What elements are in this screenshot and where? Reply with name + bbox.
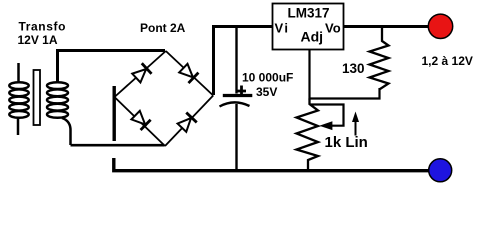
output terminal negative (blue) — [429, 159, 452, 182]
capacitor C1 top plate — [223, 94, 253, 97]
svg-text:Vi: Vi — [275, 21, 290, 36]
diode D3 (bridge lower-left, cathode toward bottom corner) — [131, 110, 151, 130]
capacitor C1 negative lead — [235, 104, 237, 169]
transformer T1 secondary winding — [47, 82, 71, 145]
wire secondary bottom to bridge AC bottom — [71, 144, 165, 147]
wire bridge DC plus riser and rail to LM317 Vi — [214, 27, 273, 96]
label capacitor "10 000uF 35V" — [242, 71, 293, 100]
wire bridge edge left-bottom — [115, 97, 166, 146]
transformer T1 core — [34, 70, 41, 125]
potentiometer P1 body (1k) — [297, 99, 319, 173]
svg-text:Vo: Vo — [325, 21, 341, 36]
svg-text:Transfo: Transfo — [19, 20, 67, 34]
output terminal positive (red) — [428, 14, 452, 38]
svg-text:LM317: LM317 — [288, 6, 330, 21]
capacitor C1 positive lead — [235, 27, 237, 94]
svg-text:12V 1A: 12V 1A — [18, 33, 58, 47]
transformer T1 primary winding — [9, 63, 28, 135]
svg-text:10 000uF: 10 000uF — [242, 71, 293, 85]
svg-text:1k Lin: 1k Lin — [325, 134, 368, 151]
svg-text:Pont 2A: Pont 2A — [140, 21, 186, 35]
wire bridge edge bottom-right — [165, 96, 213, 147]
wire bridge edge left-top — [115, 51, 166, 97]
diode D4 (bridge lower-right, cathode toward right corner) — [177, 113, 197, 133]
svg-text:130: 130 — [342, 61, 365, 76]
wire LM317 Adj to R1 bottom — [310, 50, 380, 99]
annotation up arrow — [352, 112, 359, 136]
potentiometer P1 wiper arrow — [310, 105, 344, 130]
wire secondary top to bridge AC top — [58, 51, 166, 84]
wire bottom rail (0V) to negative terminal — [114, 158, 429, 171]
svg-text:Adj: Adj — [301, 29, 324, 45]
capacitor C1 plus mark — [237, 86, 247, 96]
capacitor C1 curved plate — [220, 102, 250, 106]
wire stub at bridge left corner (DC minus) — [112, 86, 115, 141]
diode D1 (bridge upper-left, cathode toward top corner) — [131, 63, 151, 83]
wire LM317 Vo to positive output terminal — [344, 25, 429, 28]
diode D2 (bridge upper-right, cathode toward right corner) — [178, 63, 198, 83]
wire bridge edge top-right — [166, 51, 213, 96]
resistor R1 130 ohm — [370, 28, 389, 89]
regulator U1 LM317 box — [273, 4, 344, 50]
label transformer "Transfo 12V 1A" — [18, 20, 67, 48]
svg-text:1,2 à 12V: 1,2 à 12V — [422, 54, 473, 68]
svg-text:35V: 35V — [256, 85, 277, 99]
